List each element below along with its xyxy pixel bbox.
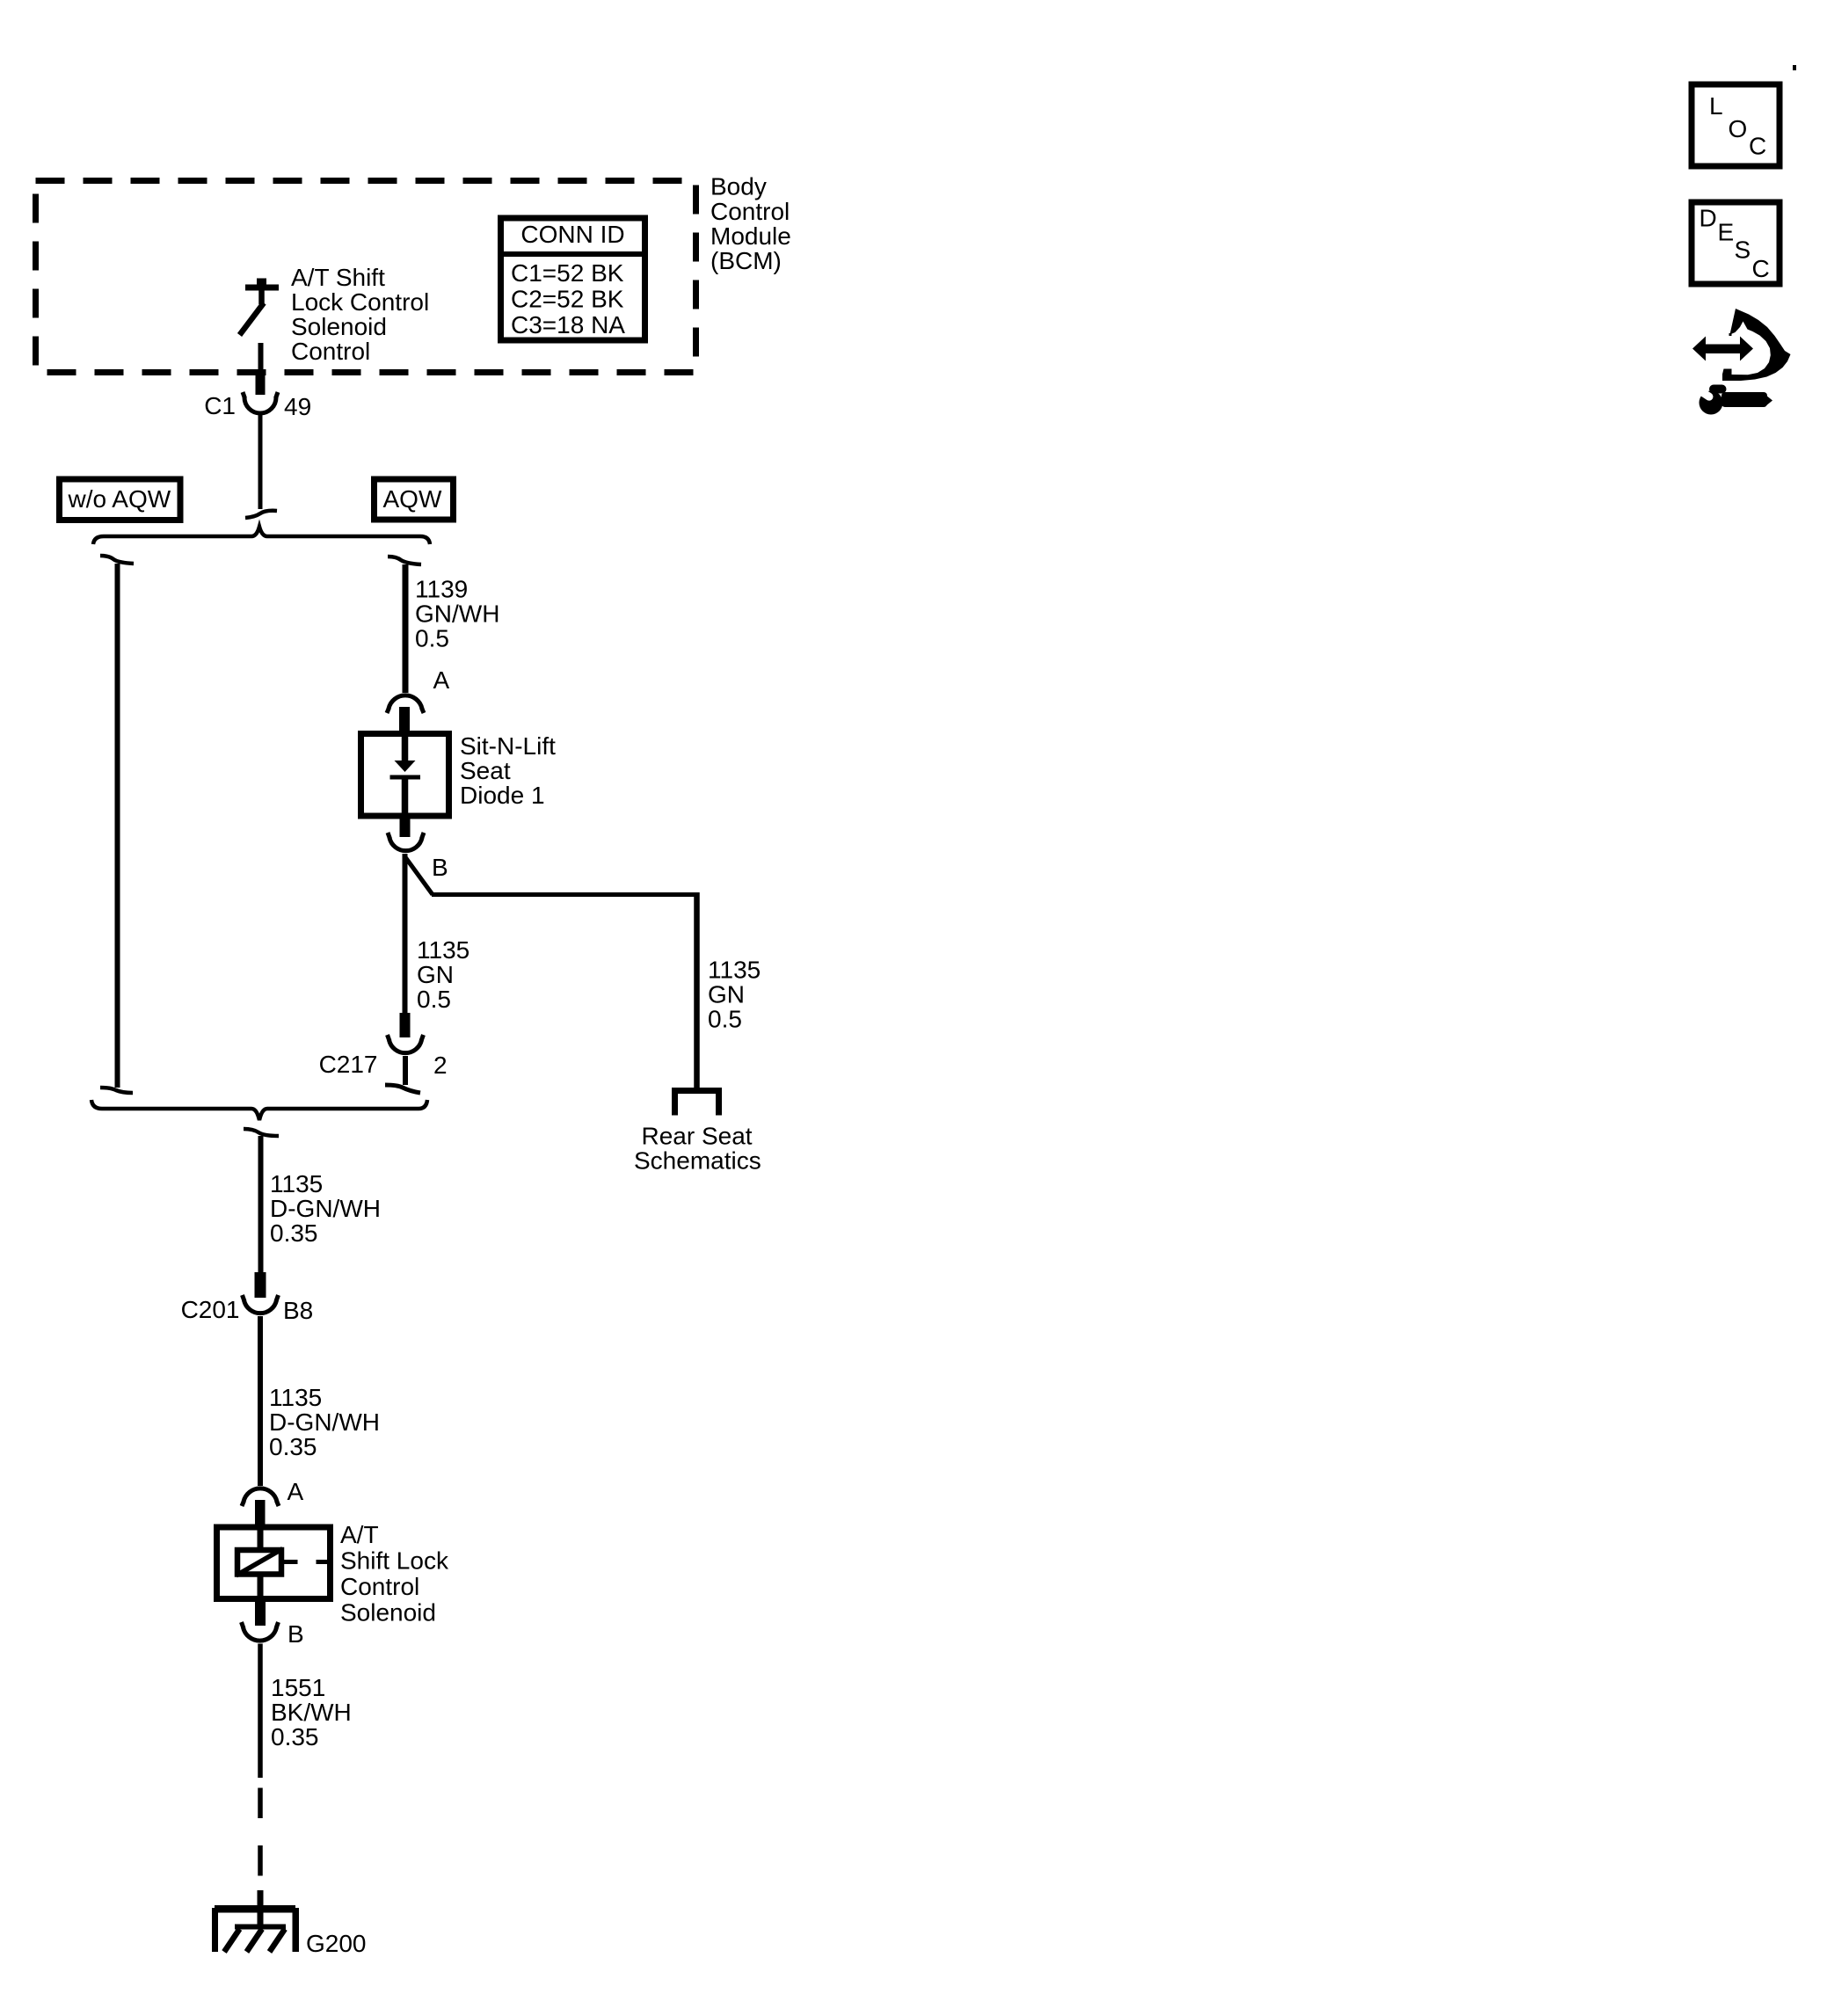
svg-text:D-GN/WH: D-GN/WH: [270, 1195, 381, 1222]
svg-text:GN: GN: [417, 961, 454, 988]
svg-text:B8: B8: [283, 1297, 313, 1324]
svg-text:GN/WH: GN/WH: [415, 600, 499, 628]
svg-text:1135: 1135: [269, 1384, 322, 1411]
svg-text:1139: 1139: [415, 576, 468, 603]
svg-text:Shift Lock: Shift Lock: [340, 1547, 449, 1575]
svg-text:C201: C201: [181, 1296, 240, 1323]
svg-text:0.5: 0.5: [415, 625, 449, 652]
svg-text:0.35: 0.35: [271, 1723, 319, 1750]
svg-text:A: A: [288, 1478, 304, 1505]
svg-text:C1: C1: [204, 392, 236, 419]
svg-text:C3=18 NA: C3=18 NA: [511, 311, 625, 338]
svg-text:0.35: 0.35: [269, 1433, 317, 1460]
svg-text:A: A: [433, 666, 450, 694]
svg-text:2: 2: [433, 1052, 448, 1079]
svg-text:C2=52 BK: C2=52 BK: [511, 286, 624, 313]
svg-text:A/T Shift: A/T Shift: [291, 264, 385, 291]
svg-text:AQW: AQW: [383, 485, 442, 513]
svg-text:Body: Body: [710, 173, 767, 200]
svg-text:C1=52 BK: C1=52 BK: [511, 259, 624, 287]
svg-text:1135: 1135: [708, 957, 761, 984]
svg-text:Seat: Seat: [460, 757, 511, 784]
svg-text:CONN ID: CONN ID: [520, 221, 624, 248]
svg-text:BK/WH: BK/WH: [271, 1699, 352, 1726]
svg-text:Sit-N-Lift: Sit-N-Lift: [460, 732, 556, 760]
svg-text:S: S: [1735, 237, 1751, 264]
svg-text:Module: Module: [710, 222, 791, 250]
svg-text:Control: Control: [340, 1573, 419, 1600]
svg-text:1551: 1551: [271, 1674, 325, 1701]
svg-text:Diode 1: Diode 1: [460, 782, 545, 809]
svg-text:E: E: [1718, 219, 1735, 246]
svg-text:Solenoid: Solenoid: [340, 1599, 436, 1627]
svg-text:1135: 1135: [417, 936, 469, 964]
svg-text:C: C: [1749, 133, 1766, 160]
svg-text:Lock Control: Lock Control: [291, 288, 429, 316]
svg-text:B: B: [432, 854, 448, 881]
svg-text:Control: Control: [291, 338, 370, 365]
svg-text:0.5: 0.5: [417, 986, 451, 1013]
svg-text:C: C: [1752, 255, 1770, 282]
svg-text:GN: GN: [708, 981, 745, 1008]
svg-text:O: O: [1729, 115, 1748, 142]
svg-text:Solenoid: Solenoid: [291, 313, 387, 340]
svg-text:G200: G200: [306, 1930, 367, 1957]
svg-text:w/o AQW: w/o AQW: [68, 485, 171, 513]
svg-text:D-GN/WH: D-GN/WH: [269, 1408, 380, 1436]
svg-text:C217: C217: [319, 1051, 378, 1078]
svg-text:49: 49: [284, 393, 311, 420]
svg-text:D: D: [1700, 205, 1717, 232]
svg-text:Control: Control: [710, 198, 790, 225]
svg-text:Rear Seat: Rear Seat: [642, 1123, 753, 1150]
svg-text:0.35: 0.35: [270, 1219, 318, 1247]
svg-text:B: B: [288, 1620, 304, 1648]
svg-text:(BCM): (BCM): [710, 247, 782, 274]
svg-text:L: L: [1709, 92, 1723, 120]
svg-text:Schematics: Schematics: [634, 1147, 761, 1175]
svg-text:0.5: 0.5: [708, 1006, 742, 1033]
svg-text:1135: 1135: [270, 1170, 323, 1197]
svg-text:A/T: A/T: [340, 1521, 379, 1548]
